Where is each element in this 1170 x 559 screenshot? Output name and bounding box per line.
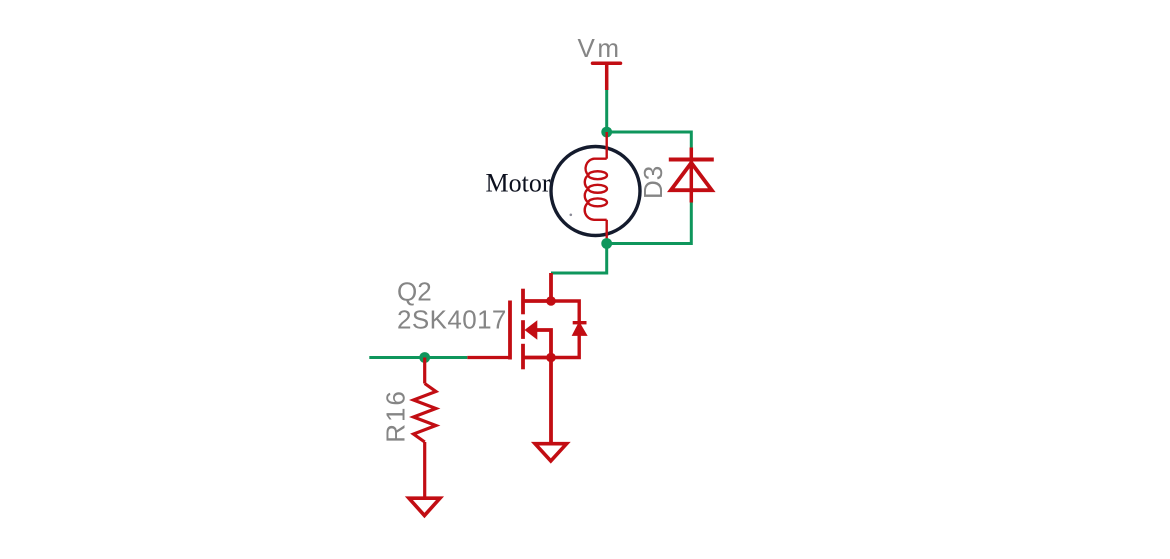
body diode rail — [551, 301, 579, 358]
power flag Vm — [593, 63, 621, 90]
zigzag body — [414, 384, 436, 443]
wire Vm to top junction — [605, 90, 608, 132]
top lead — [423, 358, 426, 384]
ground at Q2 source — [535, 444, 567, 461]
substrate arrow — [525, 320, 538, 340]
body diode triangle — [573, 324, 586, 335]
motor winding (inductor coil) — [585, 132, 607, 244]
motor M body circle — [551, 147, 640, 236]
speck artifact — [570, 214, 573, 217]
svg-text:Vm: Vm — [578, 33, 622, 63]
bulk connection — [537, 330, 551, 358]
junction node top — [601, 127, 612, 138]
channel segment middle — [521, 320, 525, 339]
svg-text:Motor: Motor — [486, 169, 551, 198]
svg-text:Q2: Q2 — [397, 276, 432, 306]
svg-text:D3: D3 — [638, 166, 668, 199]
channel segment bottom — [521, 344, 525, 370]
body diode cathode bar — [573, 321, 587, 324]
ground at R16 — [409, 498, 440, 515]
wire gate input — [369, 356, 467, 359]
source pin — [549, 358, 553, 443]
diode D3 — [669, 148, 714, 203]
svg-text:R16: R16 — [381, 389, 411, 443]
transistor Q2 (2SK4017 N-MOSFET) — [467, 273, 586, 443]
source connection — [523, 356, 551, 360]
gate bar — [508, 301, 512, 360]
channel segment top — [521, 289, 525, 315]
svg-text:2SK4017: 2SK4017 — [397, 304, 507, 334]
junction node bottom — [601, 238, 612, 249]
gate pin — [467, 356, 510, 359]
drain connection — [523, 299, 551, 303]
bottom lead — [423, 442, 426, 497]
wire bottom junction to Q2 drain — [551, 244, 607, 274]
junction source node — [546, 353, 556, 363]
resistor R16 — [414, 358, 436, 498]
junction node gate — [419, 352, 430, 363]
junction drain node — [546, 296, 556, 306]
wire top junction to diode D3 cathode — [607, 132, 692, 148]
drain pin — [549, 273, 553, 301]
wire diode anode to bottom junction — [607, 203, 692, 244]
